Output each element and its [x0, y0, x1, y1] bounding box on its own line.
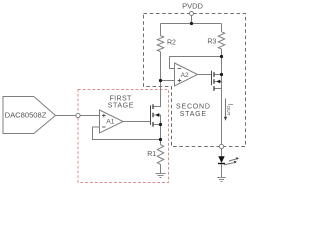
- svg-text:A1: A1: [106, 118, 114, 125]
- svg-text:FIRST: FIRST: [109, 96, 132, 103]
- svg-text:R1: R1: [147, 151, 156, 158]
- svg-text:STAGE: STAGE: [180, 111, 207, 118]
- svg-text:R2: R2: [167, 40, 176, 47]
- svg-text:SECOND: SECOND: [176, 103, 211, 110]
- svg-text:STAGE: STAGE: [108, 103, 134, 110]
- svg-text:R3: R3: [207, 39, 216, 46]
- svg-text:PVDD: PVDD: [182, 2, 203, 11]
- svg-text:DAC80508Z: DAC80508Z: [5, 110, 47, 119]
- svg-text:A2: A2: [181, 72, 189, 79]
